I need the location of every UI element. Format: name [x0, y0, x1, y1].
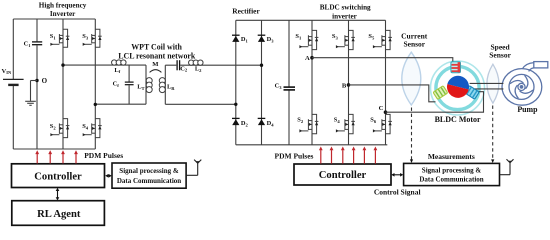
svg-text:Control Signal: Control Signal [374, 188, 421, 197]
diode D1 [232, 35, 240, 42]
transistor S5p [373, 30, 392, 49]
node: bridge midpoint S3/S4 [94, 103, 97, 106]
title: BLDC switching inverter [320, 3, 371, 20]
capacitor Cf [125, 82, 134, 86]
node B [347, 83, 351, 87]
motor winding bottom-right (phase C) [465, 86, 480, 100]
transistor S1p [299, 30, 318, 49]
wire: D1/D2 rail [235, 20, 237, 145]
wire: secondary bottom [165, 103, 236, 105]
svg-text:BLDC switching: BLDC switching [320, 3, 371, 11]
capacitor C3 [284, 87, 296, 91]
diode D3 [258, 35, 266, 42]
arrow: controller <-> signal processing (primary) [105, 174, 112, 178]
inductor Lf [112, 60, 127, 65]
wire: battery rail [12, 19, 14, 149]
wire: leg S3p/S4p [348, 20, 350, 145]
transistor S1 [50, 29, 69, 47]
transistor S2p [299, 114, 318, 133]
svg-text:Measurements: Measurements [428, 152, 475, 161]
svg-text:Sensor: Sensor [489, 50, 511, 59]
BLDC motor stator rings [431, 61, 485, 115]
wire: DC top bus [236, 19, 386, 21]
svg-text:WPT Coil with: WPT Coil with [131, 42, 182, 51]
title: high frequency inverter [39, 2, 87, 18]
antenna (primary comms) [186, 160, 201, 176]
transistor S3p [336, 30, 355, 49]
wire: leg S1p/S2p [311, 20, 313, 145]
arrow: controller <-> RL agent [56, 188, 60, 201]
svg-text:Signal processing &: Signal processing & [119, 167, 179, 175]
svg-text:O: O [42, 77, 48, 85]
svg-text:High frequency: High frequency [39, 2, 87, 10]
svg-text:LCL resonant network: LCL resonant network [118, 51, 196, 60]
svg-text:B: B [342, 83, 347, 90]
transistor S6p [373, 114, 392, 133]
svg-text:inverter: inverter [332, 12, 358, 20]
arrow: controller <-> signal processing (secondary) [391, 173, 403, 177]
wire: DC bottom bus [236, 144, 387, 146]
measurement dashed line (speed sensor) [491, 106, 494, 164]
wire: secondary top [165, 64, 261, 66]
svg-text:Signal processing &: Signal processing & [422, 166, 482, 174]
svg-text:Inverter: Inverter [50, 10, 76, 18]
PDM pulse arrows (secondary) [319, 147, 377, 164]
wire: phase B [349, 85, 436, 102]
pump [502, 62, 548, 106]
wire: primary bottom [95, 103, 146, 105]
wire: HF inverter top bus [13, 18, 95, 20]
motor winding bottom-left (phase B) [433, 86, 448, 100]
wire: leg S1/S2 [62, 19, 64, 149]
PDM pulse arrows (primary) [35, 150, 78, 163]
diode D2 [232, 118, 240, 125]
node: bridge midpoint S1/S2 [61, 63, 64, 66]
label current sensor [401, 32, 428, 49]
transistor S3 [83, 29, 102, 47]
transistor S2 [50, 119, 69, 138]
capacitor C1 [32, 41, 42, 45]
inductor LR (receiver coil) [164, 65, 166, 104]
wire: C3 rail [288, 20, 290, 145]
battery VIN [3, 79, 24, 85]
text signal processing (primary) [117, 167, 181, 185]
wire: leg S3/S4 [94, 19, 96, 149]
wire: C1 rail [36, 19, 38, 149]
wire: phase C [386, 92, 484, 113]
svg-text:Data Communication: Data Communication [419, 176, 483, 184]
wire: primary top (bridge to LT) [63, 65, 146, 104]
svg-text:Sensor: Sensor [403, 40, 425, 49]
measurement dashed line (current sensor) [410, 108, 413, 164]
node C [384, 110, 388, 114]
svg-text:M: M [152, 61, 159, 68]
svg-text:A: A [305, 55, 310, 62]
wire: Cf rail [128, 65, 130, 104]
transistor S4p [336, 114, 355, 133]
antenna (secondary comms) [500, 159, 514, 175]
title: WPT coil [118, 42, 196, 60]
wire: leg S5p/S6p [385, 20, 387, 145]
svg-text:Data Communication: Data Communication [117, 177, 181, 185]
svg-text:PDM Pulses: PDM Pulses [275, 151, 314, 160]
svg-text:Rectifier: Rectifier [232, 7, 260, 16]
svg-text:Controller: Controller [319, 170, 367, 181]
mutual coupling M arc [150, 70, 162, 73]
rotor (pie) [447, 76, 469, 98]
node: rectifier input top [260, 63, 263, 66]
svg-text:RL Agent: RL Agent [37, 209, 81, 220]
signal processing box (secondary side) [404, 163, 500, 185]
node O [35, 79, 38, 82]
wire: D3/D4 rail [261, 20, 263, 145]
diode D4 [258, 118, 266, 125]
svg-text:PDM Pulses: PDM Pulses [84, 151, 123, 160]
motor winding top (phase A) [451, 62, 461, 73]
wire: phase A [312, 58, 453, 64]
wire: HF inverter bottom bus [13, 148, 95, 150]
controller box (primary side) [12, 164, 105, 188]
signal processing box (primary side) [112, 163, 186, 188]
node A [310, 56, 314, 60]
RL agent box [12, 201, 105, 226]
node: rectifier input bottom [234, 103, 237, 106]
svg-text:Pump: Pump [517, 105, 538, 114]
svg-text:C: C [379, 105, 384, 112]
text signal processing (secondary) [419, 166, 483, 183]
svg-text:Controller: Controller [34, 171, 82, 182]
motor shaft to pump [470, 83, 504, 89]
label speed sensor [489, 42, 511, 59]
controller box (secondary side) [294, 164, 391, 185]
svg-text:BLDC Motor: BLDC Motor [435, 115, 481, 124]
current sensor lens [402, 52, 421, 105]
inductor L2 [189, 60, 204, 65]
capacitor C2 [176, 60, 180, 70]
inductor LT (transmitter coil) [146, 78, 152, 93]
ground [25, 81, 37, 106]
transistor S4 [83, 119, 102, 138]
speed sensor lens [487, 64, 499, 103]
